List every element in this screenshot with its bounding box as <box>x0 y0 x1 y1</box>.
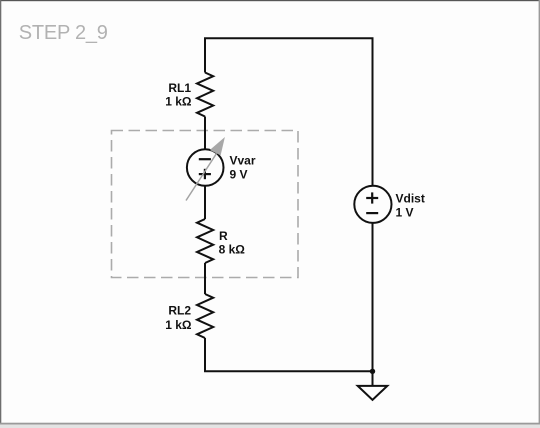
svg-text:1 kΩ: 1 kΩ <box>165 95 192 109</box>
junction node <box>370 369 375 374</box>
resistor R <box>197 219 213 263</box>
wire Vdist to junction <box>372 223 374 371</box>
svg-text:8 kΩ: 8 kΩ <box>219 243 246 257</box>
resistor RL2 <box>197 294 213 338</box>
source Vdist <box>354 186 391 223</box>
svg-text:R: R <box>219 229 228 243</box>
resistor RL1 <box>197 73 213 117</box>
svg-text:1 V: 1 V <box>396 205 414 219</box>
wire RL1 to Vvar <box>204 117 206 151</box>
wire top (node between RL1 and Vdist+) <box>205 38 373 186</box>
svg-text:RL1: RL1 <box>168 81 191 95</box>
wire Vvar to R <box>204 186 206 219</box>
svg-text:9 V: 9 V <box>230 168 248 182</box>
wire junction to ground <box>372 371 374 386</box>
svg-text:STEP 2_9: STEP 2_9 <box>19 22 108 44</box>
border frame <box>0 0 540 1</box>
wire bottom (RL2 to ground junction) <box>205 338 373 371</box>
source Vvar (variable, arrow) <box>187 149 224 186</box>
svg-text:Vvar: Vvar <box>230 154 256 168</box>
svg-text:RL2: RL2 <box>168 304 191 318</box>
dashed subcircuit box <box>112 131 299 278</box>
variability arrow <box>186 154 217 201</box>
svg-text:1 kΩ: 1 kΩ <box>165 318 192 332</box>
wire R to RL2 <box>204 263 206 294</box>
svg-text:Vdist: Vdist <box>396 191 425 205</box>
ground <box>358 386 388 400</box>
